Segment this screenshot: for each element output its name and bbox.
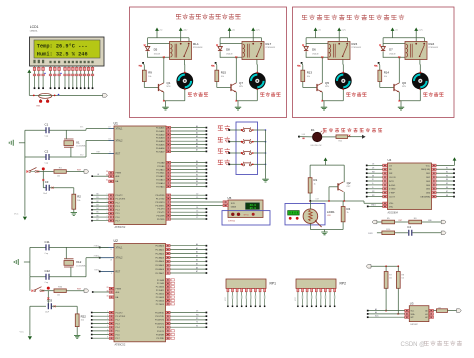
svg-text:P0.1/AD1: P0.1/AD1 [155, 249, 164, 252]
svg-text:P0.4/AD4: P0.4/AD4 [155, 260, 164, 263]
svg-text:18: 18 [108, 139, 110, 141]
svg-text:VCC: VCC [14, 214, 19, 216]
svg-text:P0.5/AD5: P0.5/AD5 [155, 264, 164, 267]
svg-text:A1: A1 [196, 128, 198, 131]
svg-text:P3.6/WR: P3.6/WR [156, 334, 165, 336]
svg-text:P3.4/T0: P3.4/T0 [157, 209, 165, 211]
svg-text:R22: R22 [81, 314, 87, 318]
svg-text:P3.5/T1: P3.5/T1 [157, 212, 165, 214]
svg-text:DHT11: DHT11 [228, 221, 236, 223]
svg-text:XTA2g: XTA2g [94, 255, 99, 258]
svg-text:ALE: ALE [116, 291, 121, 294]
svg-text:31: 31 [106, 180, 108, 182]
svg-text:C7: C7 [196, 217, 198, 219]
svg-text:P2.1/A9: P2.1/A9 [157, 165, 165, 168]
svg-text:B2: B2 [97, 201, 99, 203]
svg-text:P1.0/T2: P1.0/T2 [116, 195, 124, 197]
svg-text:WR: WR [389, 173, 393, 175]
svg-text:D1: D1 [311, 128, 315, 132]
svg-text:R9: R9 [148, 71, 152, 75]
svg-text:P3.3/INT1: P3.3/INT1 [155, 205, 165, 207]
svg-text:7: 7 [107, 333, 108, 335]
svg-text:ADC0804: ADC0804 [388, 211, 399, 214]
svg-text:PSEN: PSEN [116, 173, 122, 175]
svg-text:B1: B1 [97, 197, 99, 199]
svg-text:SCK: SCK [231, 203, 236, 205]
svg-text:B3: B3 [196, 171, 198, 173]
svg-text:VCC: VCC [426, 165, 431, 167]
svg-text:P3.0/RXD: P3.0/RXD [155, 312, 164, 314]
svg-text:XTAL2: XTAL2 [116, 257, 124, 260]
svg-text:10k: 10k [307, 76, 310, 78]
svg-text:R13: R13 [307, 71, 313, 75]
svg-text:RL5: RL5 [352, 42, 358, 46]
svg-text:A5: A5 [196, 142, 198, 145]
svg-text:1N4148: 1N4148 [312, 53, 318, 55]
svg-text:AT89C52: AT89C52 [115, 342, 126, 346]
svg-text:RP2: RP2 [340, 282, 347, 286]
svg-text:AT89C52: AT89C52 [115, 225, 126, 229]
svg-text:3: 3 [107, 318, 108, 320]
svg-text:P3.2/INT0: P3.2/INT0 [155, 202, 165, 204]
svg-text:P2.5/A13: P2.5/A13 [156, 296, 165, 299]
svg-text:DB0(LSB): DB0(LSB) [421, 169, 430, 171]
svg-text:P3.1/TXD: P3.1/TXD [155, 316, 164, 318]
svg-text:E2: E2 [446, 171, 448, 173]
svg-text:K8: K8 [372, 175, 374, 177]
svg-text:1N4148: 1N4148 [389, 53, 395, 55]
svg-text:18: 18 [110, 259, 112, 261]
svg-text:Q6: Q6 [402, 81, 406, 85]
svg-text:P3.7/RD: P3.7/RD [156, 338, 164, 340]
svg-text:B0: B0 [97, 194, 99, 196]
svg-text:XTAL2: XTAL2 [116, 140, 124, 143]
svg-text:A3: A3 [196, 255, 198, 258]
svg-text:DB7(MSB): DB7(MSB) [420, 197, 430, 199]
svg-text:SCL: SCL [411, 311, 415, 313]
svg-text:RL6: RL6 [429, 42, 435, 46]
svg-text:CLKR: CLKR [368, 233, 373, 235]
svg-text:XTAL1: XTAL1 [116, 246, 124, 249]
svg-text:A4: A4 [196, 259, 198, 262]
svg-text:VCC: VCC [20, 332, 25, 334]
svg-text:Q2: Q2 [347, 181, 351, 185]
svg-text:P3.3/INT1: P3.3/INT1 [155, 323, 165, 325]
svg-text:P2.1/A9: P2.1/A9 [157, 282, 165, 285]
svg-text:P2.7/A15: P2.7/A15 [156, 303, 165, 306]
svg-text:P2.7/A15: P2.7/A15 [156, 185, 165, 188]
svg-text:P3.7/RD: P3.7/RD [157, 219, 165, 221]
svg-text:R1: R1 [314, 178, 318, 182]
svg-text:P2.5/A13: P2.5/A13 [156, 179, 165, 182]
svg-text:P0.6/AD6: P0.6/AD6 [155, 268, 164, 271]
svg-text:A6: A6 [196, 266, 198, 269]
svg-text:B1: B1 [196, 164, 198, 166]
svg-text:65.0: 65.0 [250, 207, 257, 210]
svg-text:SHT11: SHT11 [244, 214, 249, 216]
svg-text:RSTg: RSTg [94, 269, 99, 271]
svg-text:R9: R9 [439, 307, 441, 309]
svg-text:DATA: DATA [231, 206, 237, 209]
svg-text:B5: B5 [97, 212, 99, 214]
svg-text:LDR1: LDR1 [327, 210, 335, 214]
svg-text:C1: C1 [196, 197, 198, 199]
svg-text:VIN-: VIN- [389, 206, 393, 208]
svg-text:I8: I8 [372, 179, 373, 181]
svg-text:P2.3/A11: P2.3/A11 [156, 289, 165, 292]
svg-text:D7: D7 [389, 48, 393, 52]
svg-text:A0: A0 [425, 310, 427, 313]
svg-text:E7: E7 [446, 191, 448, 193]
svg-text:RTE24005F: RTE24005F [193, 47, 204, 49]
svg-text:Q5: Q5 [325, 81, 329, 85]
svg-text:P0.1/AD1: P0.1/AD1 [156, 130, 165, 133]
svg-text:P0.2/AD2: P0.2/AD2 [156, 133, 165, 136]
svg-text:D8: D8 [372, 168, 374, 170]
svg-text:CLK IN: CLK IN [389, 177, 396, 179]
svg-text:E5: E5 [446, 183, 448, 185]
svg-text:P0.5/AD5: P0.5/AD5 [156, 144, 165, 147]
svg-text:P0.0/AD0: P0.0/AD0 [156, 127, 165, 130]
svg-text:Humi: 32.5 % 246: Humi: 32.5 % 246 [37, 51, 88, 57]
svg-text:19: 19 [110, 249, 112, 251]
svg-text:D6: D6 [312, 48, 316, 52]
svg-text:P0.6/AD6: P0.6/AD6 [156, 147, 165, 150]
svg-text:P0.2/AD2: P0.2/AD2 [155, 252, 164, 255]
svg-text:A2: A2 [196, 132, 198, 135]
svg-text:RL7: RL7 [266, 42, 272, 46]
svg-text:RL1: RL1 [193, 42, 199, 46]
svg-text:R5: R5 [196, 318, 198, 320]
svg-text:P2.2/A10: P2.2/A10 [156, 286, 165, 289]
svg-text:P2.3/A11: P2.3/A11 [156, 172, 165, 175]
svg-text:2: 2 [107, 197, 108, 199]
svg-text:29: 29 [107, 287, 109, 289]
svg-text:1k: 1k [347, 212, 349, 214]
svg-text:RTE24005F: RTE24005F [266, 47, 277, 49]
svg-text:A4: A4 [196, 138, 198, 141]
svg-text:B5: B5 [196, 178, 198, 180]
svg-text:CLK R: CLK R [389, 197, 395, 199]
svg-text:CSDN @: CSDN @ [401, 342, 426, 348]
svg-text:P3.6/WR: P3.6/WR [156, 216, 165, 218]
svg-text:A GND: A GND [389, 184, 396, 187]
svg-text:C22: C22 [45, 269, 51, 273]
svg-text:E1: E1 [446, 168, 448, 170]
svg-text:8: 8 [107, 337, 108, 339]
svg-text:XT2: XT2 [80, 155, 83, 157]
svg-text:XT1: XT1 [80, 127, 83, 129]
svg-text:P2.4/A12: P2.4/A12 [156, 175, 165, 178]
svg-text:R14: R14 [384, 71, 390, 75]
svg-text:D5: D5 [154, 48, 158, 52]
svg-text:P2.6/A14: P2.6/A14 [156, 182, 165, 185]
svg-text:A1: A1 [425, 313, 427, 316]
svg-text:INTR: INTR [389, 181, 394, 183]
svg-text:A7: A7 [196, 149, 198, 152]
svg-text:3: 3 [107, 201, 108, 203]
svg-text:V REF: V REF [389, 193, 396, 195]
svg-text:C8: C8 [372, 164, 374, 166]
svg-text:RP1: RP1 [270, 282, 277, 286]
svg-text:P2.2/A10: P2.2/A10 [156, 168, 165, 171]
svg-text:A2: A2 [196, 251, 198, 254]
svg-text:B7: B7 [97, 219, 99, 221]
svg-text:D5: D5 [196, 311, 198, 313]
svg-text:C11: C11 [45, 240, 50, 244]
svg-text:P0.3/AD3: P0.3/AD3 [156, 137, 165, 140]
svg-text:LED-YELLOW: LED-YELLOW [311, 145, 322, 147]
svg-text:B2: B2 [196, 168, 198, 170]
svg-text:E8: E8 [446, 195, 448, 197]
svg-text:P0.7/AD7: P0.7/AD7 [155, 272, 164, 275]
svg-text:U5: U5 [228, 196, 232, 200]
svg-text:PSEN: PSEN [116, 288, 122, 290]
svg-text:LCD1: LCD1 [30, 25, 39, 29]
svg-text:8: 8 [107, 219, 108, 221]
svg-text:10k: 10k [57, 176, 60, 178]
svg-text:1k: 1k [314, 183, 316, 185]
svg-text:P1.1/T2EX: P1.1/T2EX [116, 199, 126, 201]
svg-text:LM016L: LM016L [30, 30, 39, 32]
svg-text:R4: R4 [347, 207, 351, 211]
svg-text:P0.0/AD0: P0.0/AD0 [155, 245, 164, 248]
svg-text:B6: B6 [97, 215, 99, 217]
svg-text:U3: U3 [410, 302, 414, 306]
svg-text:31: 31 [107, 295, 109, 297]
svg-text:VCC: VCC [295, 296, 297, 301]
svg-text:7: 7 [107, 215, 108, 217]
svg-text:2: 2 [107, 315, 108, 317]
svg-text:P2.6/A14: P2.6/A14 [156, 299, 165, 302]
svg-text:U4: U4 [388, 158, 392, 162]
svg-text:C4: C4 [196, 207, 198, 209]
svg-text:P1.1/T2EX: P1.1/T2EX [116, 316, 126, 318]
svg-text:ALE: ALE [116, 175, 121, 178]
svg-text:RST: RST [116, 271, 121, 273]
svg-text:11.0592MHz: 11.0592MHz [76, 265, 86, 267]
svg-text:VCC: VCC [225, 296, 227, 301]
svg-text:T5: T5 [196, 322, 198, 324]
svg-text:1N4148: 1N4148 [154, 53, 160, 55]
svg-text:P0.4/AD4: P0.4/AD4 [156, 140, 165, 143]
svg-text:E3: E3 [446, 175, 448, 177]
svg-text:XTAL1: XTAL1 [116, 128, 124, 131]
svg-text:K5: K5 [196, 325, 198, 327]
svg-text:P2.0/A8: P2.0/A8 [157, 279, 165, 282]
svg-text:11.0592MHz: 11.0592MHz [76, 146, 86, 148]
svg-text:RST: RST [116, 153, 121, 155]
svg-text:U2: U2 [114, 239, 118, 243]
svg-text:C3: C3 [45, 180, 49, 184]
svg-text:P2.4/A12: P2.4/A12 [156, 293, 165, 296]
svg-text:Q1: Q1 [167, 81, 171, 85]
svg-text:D8: D8 [226, 48, 230, 52]
svg-text:A5: A5 [375, 308, 377, 311]
svg-text:10k: 10k [77, 200, 80, 202]
svg-text:R2: R2 [77, 195, 81, 199]
svg-text:10k: 10k [148, 76, 151, 78]
svg-text:1: 1 [107, 194, 108, 196]
svg-text:U1: U1 [114, 121, 118, 125]
svg-text:5: 5 [107, 326, 108, 328]
svg-text:4: 4 [107, 322, 108, 324]
svg-text:4: 4 [107, 205, 108, 207]
svg-text:24C02C: 24C02C [410, 324, 418, 326]
svg-text:C6: C6 [196, 214, 198, 216]
svg-text:1: 1 [107, 311, 108, 313]
svg-text:19: 19 [108, 127, 110, 129]
svg-text:E4: E4 [446, 179, 448, 181]
svg-text:P1.0/T2: P1.0/T2 [116, 312, 124, 314]
svg-text:10k: 10k [81, 320, 84, 322]
svg-text:P0.7/AD7: P0.7/AD7 [156, 150, 165, 153]
svg-text:9: 9 [109, 151, 110, 153]
svg-text:6: 6 [107, 212, 108, 214]
svg-text:10k: 10k [57, 295, 60, 297]
svg-text:W5: W5 [196, 314, 199, 316]
svg-text:1N4148: 1N4148 [226, 53, 232, 55]
svg-text:P3.2/INT0: P3.2/INT0 [155, 320, 165, 322]
svg-text:C4: C4 [407, 225, 411, 229]
svg-text:A6: A6 [196, 145, 198, 148]
svg-text:W8: W8 [372, 171, 375, 173]
svg-text:9: 9 [111, 273, 112, 275]
svg-text:B7: B7 [196, 185, 198, 187]
svg-text:X12: X12 [76, 260, 82, 264]
svg-text:10k: 10k [402, 278, 405, 280]
svg-text:C5: C5 [196, 210, 198, 212]
svg-text:B4: B4 [196, 174, 198, 176]
svg-text:E6: E6 [446, 187, 448, 189]
svg-text:5: 5 [107, 208, 108, 210]
svg-text:P3.5/T1: P3.5/T1 [157, 331, 165, 333]
svg-text:P3.0/RXD: P3.0/RXD [156, 195, 165, 197]
svg-text:B6: B6 [196, 181, 198, 183]
svg-text:A1: A1 [196, 247, 198, 250]
svg-text:C2: C2 [45, 149, 49, 153]
svg-text:A0: A0 [196, 125, 198, 128]
svg-text:RTE24005F: RTE24005F [429, 47, 440, 49]
svg-text:XTA1g: XTA1g [94, 244, 99, 247]
svg-text:10k: 10k [384, 76, 387, 78]
svg-text:Q7: Q7 [239, 81, 243, 85]
svg-text:A6: A6 [375, 311, 377, 314]
svg-text:10k: 10k [389, 278, 392, 280]
svg-text:P2.0/A8: P2.0/A8 [157, 162, 165, 165]
svg-text:A2: A2 [425, 316, 427, 319]
svg-text:B0: B0 [196, 161, 198, 163]
svg-text:D GND: D GND [389, 189, 396, 191]
svg-text:B4: B4 [97, 208, 99, 210]
svg-text:A7: A7 [196, 270, 198, 273]
svg-text:A0: A0 [196, 243, 198, 246]
svg-text:RTE24005F: RTE24005F [352, 47, 363, 49]
svg-text:P3.1/TXD: P3.1/TXD [156, 199, 165, 201]
svg-text:P3.4/T0: P3.4/T0 [157, 327, 165, 329]
svg-text:GND1: GND1 [371, 205, 376, 207]
svg-text:X1: X1 [76, 140, 80, 144]
svg-text:10k: 10k [221, 76, 224, 78]
svg-text:R15: R15 [221, 71, 227, 75]
svg-text:P0.3/AD3: P0.3/AD3 [155, 256, 164, 259]
svg-text:A3: A3 [196, 135, 198, 138]
svg-text:A5: A5 [196, 262, 198, 265]
svg-text:C0: C0 [196, 193, 198, 195]
svg-text:B3: B3 [97, 204, 99, 206]
svg-text:C33: C33 [47, 299, 53, 303]
svg-text:29: 29 [106, 171, 108, 173]
svg-text:C1: C1 [45, 123, 49, 127]
svg-text:Temp: 26.9°C ---: Temp: 26.9°C --- [37, 43, 88, 49]
svg-text:6: 6 [107, 329, 108, 331]
